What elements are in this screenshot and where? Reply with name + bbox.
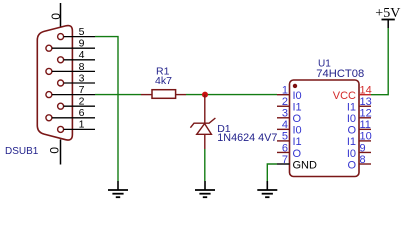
pin 7 [46,84,95,98]
svg-text:7: 7 [79,84,85,96]
U1 pin 10 [347,131,372,149]
power +5V [375,6,400,28]
svg-text:I1: I1 [347,102,356,114]
svg-text:2: 2 [282,96,288,108]
svg-text:6: 6 [282,142,288,154]
svg-text:GND: GND [293,159,318,171]
svg-text:O: O [347,159,356,171]
U1 pin 2 [277,96,302,114]
svg-text:13: 13 [360,96,372,108]
IC U1 body [290,80,360,177]
svg-text:14: 14 [360,85,372,97]
label U1 [318,59,331,70]
svg-text:I0: I0 [293,125,302,137]
svg-text:4k7: 4k7 [155,75,172,87]
label D1 [217,123,231,135]
svg-text:9: 9 [360,142,366,154]
wire pin5 to ground [95,37,118,181]
svg-text:6: 6 [79,107,85,119]
svg-text:I0: I0 [347,148,356,160]
pin 5 [58,26,95,40]
svg-text:VCC: VCC [333,90,356,102]
label R1 [156,66,170,78]
U1 pin 4 [277,119,302,137]
label DSUB1 [5,146,39,157]
value 74HCT08 [316,68,364,80]
svg-text:2: 2 [79,96,85,108]
wire R1 to U1 pin1 [186,94,277,96]
pin 4 [58,49,95,63]
svg-text:0: 0 [47,147,61,154]
svg-text:74HCT08: 74HCT08 [316,68,364,80]
U1 pin 7 GND [277,154,317,172]
svg-text:12: 12 [360,108,372,120]
U1 pin 12 [347,108,372,126]
svg-text:I0: I0 [293,90,302,102]
svg-text:5: 5 [282,131,288,143]
U1 pin 13 [347,96,372,114]
svg-text:I1: I1 [347,136,356,148]
wire pin7 to R1 [95,94,141,96]
svg-text:3: 3 [282,108,288,120]
shield pin 0 top [49,3,63,27]
pin 3 [58,72,95,86]
ground (D1) [195,181,215,197]
shield pin 0 bottom [47,140,61,165]
value 1N4624 4V7 [217,132,277,144]
svg-text:8: 8 [360,154,366,166]
pin 6 [46,107,95,121]
U1 pin 5 [277,131,302,149]
svg-text:DSUB1: DSUB1 [5,146,39,157]
wire U1 pin7 to ground [267,164,277,181]
U1 pin 11 [347,119,371,137]
svg-text:0: 0 [49,13,63,20]
U1 pin 14 VCC [333,85,372,103]
svg-text:I0: I0 [347,113,356,125]
svg-text:I1: I1 [293,102,302,114]
zener diode D1 [190,95,215,149]
pin 2 [58,96,95,110]
svg-text:9: 9 [79,38,85,50]
wire D1 to ground [204,149,206,181]
resistor R1 [141,90,186,99]
U1 pin 8 [347,154,371,172]
svg-text:10: 10 [360,131,372,143]
ground (U1) [257,181,277,197]
svg-text:1: 1 [79,119,85,131]
svg-text:1: 1 [282,85,288,97]
junction node [202,92,208,98]
svg-text:8: 8 [79,61,85,73]
U1 pin 9 [347,142,371,160]
svg-text:4: 4 [282,119,288,131]
svg-text:O: O [293,148,302,160]
svg-text:O: O [347,125,356,137]
connector DSUB1 body [37,26,72,141]
U1 pin 1 [277,85,302,103]
pin 1 [58,119,95,133]
svg-text:4: 4 [79,49,85,61]
svg-text:5: 5 [79,26,85,38]
pin 9 [46,38,95,52]
svg-text:3: 3 [79,72,85,84]
value 4k7 [155,75,172,87]
svg-text:7: 7 [282,154,288,166]
pin 8 [46,61,95,75]
wire +5V to U1 pin14 [371,28,388,95]
svg-text:I1: I1 [293,136,302,148]
U1 pin 3 [277,108,302,126]
svg-text:1N4624 4V7: 1N4624 4V7 [217,132,277,144]
U1 pin 6 [277,142,302,160]
svg-text:11: 11 [360,119,371,131]
svg-text:O: O [293,113,302,125]
ground (DSUB) [108,181,128,197]
